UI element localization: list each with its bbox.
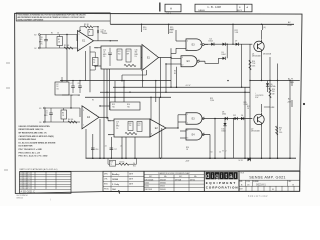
svg-text:2N4258: 2N4258	[160, 179, 166, 181]
svg-text:R14: R14	[127, 104, 130, 106]
svg-text:D664: D664	[169, 32, 173, 34]
svg-text:.01: .01	[103, 52, 105, 54]
svg-text:DEC FORM NO: DEC FORM NO	[17, 195, 29, 197]
svg-text:7.5: 7.5	[110, 164, 112, 166]
svg-text:R5: R5	[93, 60, 95, 62]
svg-text:C16: C16	[95, 149, 98, 151]
svg-text:R5: R5	[174, 73, 176, 75]
svg-text:10/4: 10/4	[112, 188, 116, 191]
svg-text:-15V: -15V	[185, 160, 190, 162]
svg-text:A SD G021 C: A SD G021 C	[21, 190, 36, 193]
svg-text:d: d	[206, 174, 209, 180]
svg-text:1N3606: 1N3606	[160, 183, 166, 185]
svg-text:2N964: 2N964	[102, 33, 107, 35]
svg-text:R23: R23	[210, 98, 213, 100]
svg-text:SENSE AMP. G021: SENSE AMP. G021	[249, 175, 286, 179]
svg-text:E5: E5	[174, 71, 176, 73]
svg-text:750: 750	[112, 106, 115, 108]
svg-text:R12: R12	[127, 51, 130, 53]
svg-text:RESISTORS ARE 1/4W; 5%: RESISTORS ARE 1/4W; 5%	[19, 128, 44, 131]
svg-text:R18: R18	[129, 123, 132, 125]
svg-text:DEC6534B: DEC6534B	[252, 56, 261, 58]
svg-text:12: 12	[187, 130, 189, 132]
svg-text:CORPORATION: CORPORATION	[206, 186, 239, 190]
svg-text:1 2 3 4 5 6 7 8: 1 2 3 4 5 6 7 8	[20, 175, 30, 177]
svg-text:10: 10	[182, 65, 184, 67]
svg-text:R16: R16	[252, 61, 255, 63]
svg-text:i: i	[212, 174, 213, 180]
svg-text:EQUIPMENT: EQUIPMENT	[206, 181, 237, 185]
svg-text:1N750A: 1N750A	[175, 178, 182, 181]
svg-text:D662: D662	[145, 186, 149, 188]
svg-text:D10: D10	[270, 84, 273, 86]
svg-text:12: 12	[219, 152, 221, 154]
svg-text:2,200: 2,200	[244, 104, 248, 106]
svg-text:PARTS LIST IS ATTACHED (A-PL-: PARTS LIST IS ATTACHED (A-PL-G021-0-0)	[20, 168, 58, 171]
svg-text:1N750: 1N750	[190, 179, 195, 181]
svg-text:1 - B - 1238: 1 - B - 1238	[207, 5, 221, 9]
svg-text:R13: R13	[112, 104, 115, 106]
svg-text:PIN 14 ON E1; E2 = +5V: PIN 14 ON E1; E2 = +5V	[19, 151, 41, 154]
svg-text:750: 750	[129, 125, 132, 127]
svg-text:REV B: REV B	[237, 10, 242, 12]
svg-text:ENG.: ENG.	[104, 184, 108, 186]
svg-text:10: 10	[211, 152, 213, 154]
svg-text:.01: .01	[45, 113, 47, 115]
svg-text:DRB 102: DRB 102	[17, 197, 24, 199]
svg-text:E1, E2, E3 & E4 ARE WIRED AS S: E1, E2, E3 & E4 ARE WIRED AS SHOWN	[19, 141, 56, 144]
svg-text:GND: GND	[290, 82, 295, 84]
svg-text:C17: C17	[114, 149, 117, 151]
svg-text:DIODES ARE D664: DIODES ARE D664	[19, 138, 37, 141]
svg-text:R24: R24	[272, 89, 275, 91]
svg-text:13: 13	[187, 138, 189, 140]
svg-text:DEC6534B: DEC6534B	[263, 54, 271, 56]
svg-text:C7: C7	[71, 83, 73, 85]
svg-text:CODE: CODE	[246, 181, 250, 183]
svg-text:+: +	[255, 93, 256, 95]
svg-text:E2: E2	[34, 35, 36, 37]
svg-text:1 2 3 4 5 6 7 8: 1 2 3 4 5 6 7 8	[20, 183, 30, 185]
svg-text:R11: R11	[118, 51, 121, 53]
svg-text:W: W	[92, 100, 94, 102]
svg-text:1 2 3 4 5 6 7 8: 1 2 3 4 5 6 7 8	[20, 173, 30, 175]
svg-text:PIN 3 IS C; 4,5,6,7,8 = F3 = G: PIN 3 IS C; 4,5,6,7,8 = F3 = GND	[19, 155, 48, 158]
svg-text:MF RESISTORS ARE 1/8W; 1%: MF RESISTORS ARE 1/8W; 1%	[19, 131, 47, 134]
svg-text:.01: .01	[105, 146, 107, 148]
svg-text:C20: C20	[138, 123, 141, 125]
svg-text:l: l	[235, 174, 236, 180]
svg-text:A1, F1: A1, F1	[288, 77, 293, 80]
svg-text:R3: R3	[62, 113, 64, 115]
svg-text:-3.9 VOLTS: -3.9 VOLTS	[255, 95, 263, 97]
svg-text:R30: R30	[279, 128, 282, 130]
svg-text:C8: C8	[78, 83, 80, 85]
svg-text:CHK.: CHK.	[104, 179, 108, 181]
svg-text:P2: P2	[95, 66, 97, 68]
svg-text:R1: R1	[58, 39, 60, 41]
svg-text:PROD.: PROD.	[104, 189, 110, 191]
svg-text:1 2 3 4 5 6 7 8: 1 2 3 4 5 6 7 8	[20, 178, 30, 180]
svg-text:1K: 1K	[93, 62, 95, 64]
svg-text:8 1/2 x 11 7 x 4 1/2: 8 1/2 x 11 7 x 4 1/2	[248, 196, 268, 198]
svg-text:D664: D664	[222, 54, 226, 56]
svg-text:.01: .01	[116, 124, 118, 126]
svg-text:D6: D6	[241, 115, 243, 117]
svg-text:D2: D2	[34, 48, 36, 50]
svg-text:A: A	[170, 6, 172, 10]
svg-text:2,200: 2,200	[210, 100, 214, 102]
svg-text:MF: MF	[127, 53, 129, 55]
svg-text:910: 910	[272, 91, 275, 93]
svg-text:R17: R17	[138, 125, 141, 127]
svg-text:750: 750	[127, 106, 130, 108]
svg-text:C15: C15	[103, 50, 106, 52]
svg-text:14 TO: 14 TO	[239, 160, 244, 162]
svg-text:D12: D12	[233, 115, 236, 117]
svg-text:DEC3009: DEC3009	[145, 189, 152, 191]
svg-text:C16: C16	[135, 50, 138, 52]
svg-text:E5 IN EMITTER: E5 IN EMITTER	[19, 146, 33, 148]
svg-text:R2 240: R2 240	[64, 45, 69, 47]
svg-text:R27: R27	[247, 106, 250, 108]
svg-text:D7: D7	[235, 41, 237, 43]
svg-text:D664: D664	[209, 41, 213, 43]
svg-text:PIN 7 ON EACH IC = GND: PIN 7 ON EACH IC = GND	[19, 148, 43, 151]
svg-text:DEC6534B: DEC6534B	[145, 179, 154, 181]
svg-text:R21: R21	[133, 166, 136, 168]
svg-text:1 2 3 4 5 6 7 8: 1 2 3 4 5 6 7 8	[20, 180, 30, 182]
svg-text:DIST: DIST	[240, 189, 243, 191]
svg-text:g: g	[215, 174, 218, 180]
svg-text:R1: R1	[51, 32, 53, 34]
svg-text:i: i	[221, 174, 222, 180]
svg-text:R4 240: R4 240	[68, 119, 73, 121]
svg-text:.01: .01	[78, 95, 80, 97]
svg-text:R26: R26	[186, 147, 189, 149]
svg-text:R20 1K: R20 1K	[120, 161, 125, 163]
svg-text:1N645: 1N645	[160, 186, 165, 188]
svg-text:DEC6534B: DEC6534B	[251, 131, 260, 133]
svg-text:G021-0-1: G021-0-1	[256, 185, 266, 187]
svg-text:DRN.: DRN.	[104, 174, 108, 176]
svg-text:C21: C21	[45, 111, 48, 113]
svg-text:UNLESS OTHERWISE INDICATED:: UNLESS OTHERWISE INDICATED:	[19, 125, 51, 128]
svg-text:C19: C19	[116, 122, 119, 124]
svg-text:Bradley: Bradley	[112, 174, 120, 176]
svg-text:J. Cady: J. Cady	[112, 184, 120, 186]
svg-text:NUMBER: NUMBER	[253, 181, 259, 183]
svg-text:360: 360	[135, 52, 138, 54]
svg-text:750: 750	[118, 53, 121, 55]
svg-text:D664: D664	[145, 183, 149, 185]
svg-text:E1: E1	[39, 108, 41, 110]
svg-text:+10V: +10V	[287, 25, 292, 27]
svg-text:10/3/68: 10/3/68	[112, 179, 118, 181]
svg-text:D664: D664	[222, 114, 226, 116]
svg-text:R7: R7	[57, 84, 59, 86]
svg-text:CAPACITORS ARE 20 MFD MYLON(M): CAPACITORS ARE 20 MFD MYLON(M)	[19, 135, 54, 138]
svg-text:TITLE: TITLE	[240, 173, 244, 175]
svg-text:2N3009: 2N3009	[160, 189, 166, 191]
svg-text:R19: R19	[110, 162, 113, 164]
svg-text:1 2 3 4 5 6 7 8: 1 2 3 4 5 6 7 8	[20, 185, 30, 187]
svg-text:1K: 1K	[57, 86, 59, 88]
svg-text:SIZE: SIZE	[240, 181, 243, 183]
svg-text:C6: C6	[57, 32, 59, 34]
svg-text:D1: D1	[39, 122, 41, 124]
svg-text:-1.2 V: -1.2 V	[185, 85, 191, 87]
